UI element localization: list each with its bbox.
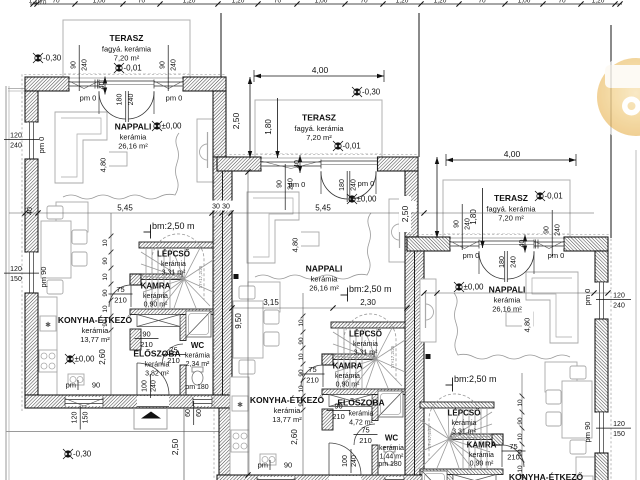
svg-text:90: 90 [142, 330, 150, 339]
svg-text:60: 60 [185, 409, 192, 417]
unit2 party wall [405, 237, 424, 475]
svg-text:pm 90: pm 90 [39, 267, 48, 288]
svg-text:KONYHA-ÉTKEZŐ: KONYHA-ÉTKEZŐ [58, 314, 133, 325]
svg-text:TERASZ: TERASZ [494, 193, 528, 203]
unit1 front wall right block [183, 77, 226, 91]
svg-text:NAPPALI: NAPPALI [306, 264, 343, 274]
walkway line bottom-left [6, 431, 222, 433]
unit3 left wall mid [595, 319, 608, 412]
unit2 terrace french door arcs [346, 171, 348, 202]
unit3 terrace french door arcs [506, 251, 508, 282]
svg-text:LÉPCSŐ: LÉPCSŐ [349, 330, 382, 339]
svg-text:pm 0: pm 0 [358, 179, 375, 188]
svg-text:1,44 m²: 1,44 m² [380, 454, 404, 461]
unit1 geometry [22, 20, 239, 475]
svg-text:4,70: 4,70 [34, 0, 47, 7]
svg-text:4,00: 4,00 [504, 149, 521, 159]
svg-text:10: 10 [298, 319, 305, 327]
svg-text:1,80: 1,80 [469, 209, 478, 225]
svg-text:90: 90 [298, 337, 305, 345]
unit3 kamra door [502, 445, 524, 467]
svg-text:3,31 m²: 3,31 m² [162, 270, 186, 277]
unit3 level marker 0,00 [454, 282, 464, 292]
svg-text:120: 120 [10, 266, 22, 273]
svg-text:10: 10 [102, 273, 109, 281]
svg-text:210: 210 [306, 376, 319, 385]
unit3 level marker -0,01 [535, 191, 545, 201]
unit3 revision squiggle [454, 293, 570, 359]
svg-text:240: 240 [351, 179, 358, 191]
svg-text:✱: ✱ [45, 321, 51, 329]
unit2 right wall upper [405, 171, 418, 237]
unit2 front window label a [277, 164, 295, 210]
svg-text:240: 240 [151, 380, 158, 392]
unit3 left window 120/150 [597, 412, 606, 453]
svg-text:5,45: 5,45 [315, 204, 331, 213]
svg-text:180: 180 [117, 94, 124, 106]
svg-text:3,31 m²: 3,31 m² [452, 429, 476, 436]
svg-text:1,20: 1,20 [396, 0, 409, 5]
svg-text:90: 90 [298, 399, 305, 407]
unit3 front window band left [534, 240, 564, 249]
svg-text:70: 70 [274, 0, 282, 5]
unit1 entrance opening [137, 396, 169, 407]
svg-text:150: 150 [83, 412, 90, 424]
svg-text:90: 90 [284, 461, 292, 470]
svg-text:fagyá. kerámia: fagyá. kerámia [102, 45, 152, 54]
unit1 electric box [234, 274, 239, 279]
unit1 terrace french door arcs [125, 91, 127, 122]
unit2 kamra wall top [322, 354, 374, 360]
unit2 wardrobe [329, 395, 372, 407]
unit1 dining table [41, 221, 71, 278]
unit2 level marker -0,01 [333, 141, 343, 151]
party wall extension line 1 [220, 13, 222, 77]
svg-text:kerámia: kerámia [335, 373, 360, 380]
unit2 kamra door [301, 365, 323, 387]
svg-text:90: 90 [334, 402, 342, 411]
svg-text:13,77 m²: 13,77 m² [272, 415, 302, 424]
svg-text:pm 90: pm 90 [583, 422, 592, 443]
top dimension chain [30, 3, 622, 5]
dim 9,50 unit2 left [247, 172, 249, 475]
svg-text:2,50: 2,50 [400, 205, 410, 222]
unit2 dining chairs [239, 286, 255, 299]
svg-text:240: 240 [10, 143, 22, 150]
svg-text:pm 0: pm 0 [166, 94, 183, 103]
svg-text:1,20: 1,20 [592, 0, 605, 5]
svg-text:70: 70 [558, 0, 566, 5]
unit1 left window label 1 [4, 133, 39, 150]
unit2 bm:2,50 label [341, 294, 349, 296]
unit1 entrance stoop [134, 408, 167, 429]
unit2 armchair [248, 282, 280, 312]
unit2 fridge [232, 396, 248, 411]
svg-text:10: 10 [517, 433, 524, 441]
svg-text:kerámia: kerámia [120, 133, 148, 142]
svg-text:1,00: 1,00 [93, 0, 106, 5]
unit3 stair wall [420, 402, 494, 408]
svg-text:180: 180 [499, 256, 506, 268]
unit2 toilet [384, 447, 395, 452]
svg-text:fagyá. kerámia: fagyá. kerámia [294, 124, 344, 133]
svg-text:90: 90 [102, 257, 109, 265]
svg-text:±0,00: ±0,00 [162, 122, 183, 131]
unit3 sofa [526, 272, 578, 343]
dim 4,00 above unit2 terrace [254, 75, 384, 77]
unit3 kitchen dim chain [521, 373, 523, 480]
svg-text:90: 90 [277, 180, 284, 188]
svg-text:ELŐSZOBA: ELŐSZOBA [337, 397, 384, 408]
unit3 left wall lower [595, 453, 608, 480]
unit1 kitchen level marker [65, 354, 75, 364]
svg-text:26,16 m²: 26,16 m² [118, 142, 148, 151]
svg-text:7,20 m²: 7,20 m² [306, 133, 332, 142]
svg-text:17×17,2/25: 17×17,2/25 [427, 425, 432, 448]
unit1 kitchen sink [68, 374, 84, 385]
svg-text:WC: WC [385, 434, 399, 443]
svg-text:KAMRA: KAMRA [467, 441, 497, 450]
svg-text:30: 30 [212, 204, 220, 211]
svg-text:26,16 m²: 26,16 m² [492, 305, 522, 314]
svg-text:3,31 m²: 3,31 m² [354, 350, 378, 357]
unit2 kitchen counter [230, 377, 249, 475]
watermark logo [592, 53, 640, 143]
unit1 wc door [162, 344, 183, 365]
unit1 left window label 2 [4, 266, 39, 283]
unit1 kamra wall corner [130, 274, 141, 285]
svg-text:150: 150 [613, 431, 625, 438]
unit2 electric box [426, 354, 431, 359]
svg-text:3,15: 3,15 [263, 298, 279, 307]
svg-text:90: 90 [92, 381, 100, 390]
unit2 kamra wall left lower [322, 409, 333, 430]
unit3 staircase [420, 394, 492, 468]
unit1 bm:2,50 label [144, 231, 152, 233]
unit1 kamra wall left lower [130, 329, 141, 350]
svg-text:-0,01: -0,01 [124, 64, 143, 73]
svg-text:kerámia: kerámia [349, 411, 374, 418]
unit2 front window band [261, 160, 321, 169]
svg-text:0,90 m²: 0,90 m² [336, 382, 360, 389]
svg-text:210: 210 [332, 412, 345, 421]
svg-text:pm 0: pm 0 [37, 137, 46, 154]
unit3 front window band right [450, 240, 479, 249]
unit2 wc wall lower [372, 445, 378, 475]
svg-text:10: 10 [298, 353, 305, 361]
svg-text:±0,00: ±0,00 [75, 355, 96, 364]
interior dim chain y=213 [9, 212, 594, 214]
svg-text:210: 210 [167, 356, 180, 365]
svg-text:120: 120 [72, 412, 79, 424]
svg-text:5,45: 5,45 [117, 204, 133, 213]
unit1 kamra door [109, 285, 131, 307]
svg-text:70: 70 [360, 0, 368, 5]
svg-text:1,20: 1,20 [434, 0, 447, 5]
unit3 right window label 2 [596, 421, 631, 438]
unit1 left wall mid [25, 159, 38, 252]
unit2 wc wall upper [372, 395, 378, 421]
svg-text:75: 75 [116, 285, 124, 294]
svg-text:pm 0: pm 0 [548, 251, 565, 260]
svg-text:10: 10 [298, 385, 305, 393]
svg-text:-0,30: -0,30 [73, 450, 92, 459]
svg-text:kerámia: kerámia [353, 341, 378, 348]
svg-text:240: 240 [613, 303, 625, 310]
dim 2,50 unit1-unit2 step [249, 77, 251, 158]
unit1 armchair [56, 202, 88, 232]
svg-text:90: 90 [102, 319, 109, 327]
unit3 window opening V marks [450, 241, 564, 249]
unit1 right wall upper [213, 91, 226, 157]
svg-text:240: 240 [128, 94, 135, 106]
unit2 kitchen window 120/150 [257, 477, 295, 480]
unit3 kamra wall corner [492, 434, 503, 445]
unit2 geometry [214, 100, 431, 480]
svg-text:90: 90 [517, 417, 524, 425]
unit1 terrace outline [63, 20, 190, 78]
svg-text:1,20: 1,20 [232, 0, 245, 5]
svg-text:KONYHA-ÉTKEZŐ: KONYHA-ÉTKEZŐ [250, 394, 325, 405]
svg-text:210: 210 [359, 436, 372, 445]
dim 4,00 above unit3 terrace [446, 159, 576, 161]
unit1 stove [39, 350, 57, 372]
party wall extension line 2 [418, 13, 420, 157]
svg-text:75: 75 [169, 346, 177, 355]
unit3 eaves dashed outline [407, 235, 611, 480]
unit1 shower [186, 311, 211, 337]
svg-text:10: 10 [517, 399, 524, 407]
unit3 front window label a [544, 210, 562, 256]
unit2 tv sideboard [389, 199, 405, 262]
unit3 wardrobe [453, 475, 496, 480]
unit2 terrace outline [255, 100, 382, 158]
unit1 stair wall [139, 242, 213, 248]
svg-text:pm 0: pm 0 [583, 289, 592, 306]
unit2 entrance opening [329, 476, 361, 480]
svg-text:NAPPALI: NAPPALI [115, 122, 152, 132]
svg-text:7,20 m²: 7,20 m² [498, 214, 524, 223]
unit2 dining table [233, 301, 263, 358]
unit1 kitchen window 120/150 [65, 397, 103, 406]
svg-text:10: 10 [102, 305, 109, 313]
svg-text:100: 100 [142, 380, 149, 392]
unit1 level marker -0,01 [114, 63, 124, 73]
unit1 front window band left [69, 80, 99, 89]
svg-text:fagyá. kerámia: fagyá. kerámia [486, 205, 536, 214]
unit3 front window label b [454, 204, 472, 250]
unit3 coffee table [506, 312, 533, 326]
svg-text:75: 75 [361, 426, 369, 435]
svg-text:bm:2,50 m: bm:2,50 m [349, 284, 392, 294]
svg-text:240: 240 [511, 256, 518, 268]
svg-text:pm 180: pm 180 [378, 461, 401, 468]
svg-text:13,77 m²: 13,77 m² [80, 335, 110, 344]
unit2 hall wall top [322, 389, 405, 395]
svg-text:60: 60 [196, 409, 203, 417]
svg-text:9,50: 9,50 [234, 313, 243, 329]
site level marker -0,30 [63, 449, 73, 459]
unit2 hall entrance door [329, 443, 361, 475]
svg-text:240: 240 [351, 455, 358, 467]
unit2 revision squiggle [255, 213, 371, 279]
unit1 dining chairs [47, 206, 63, 219]
unit2 kamra wall corner [322, 354, 333, 365]
svg-text:KAMRA: KAMRA [141, 282, 171, 291]
unit3 left window 120/240 [597, 282, 606, 319]
svg-text:WC: WC [191, 341, 205, 350]
svg-text:70: 70 [138, 0, 146, 5]
unit1 toilet [192, 367, 203, 372]
svg-text:kerámia: kerámia [311, 275, 339, 284]
svg-text:TERASZ: TERASZ [302, 113, 336, 123]
unit1 eaves dashed outline [22, 75, 226, 412]
svg-text:kerámia: kerámia [185, 353, 210, 360]
svg-text:90: 90 [102, 289, 109, 297]
svg-text:1,80: 1,80 [264, 119, 273, 135]
unit3 kitchen counter [576, 457, 595, 480]
svg-text:26,16 m²: 26,16 m² [309, 284, 339, 293]
unit3 right window label 1 [596, 293, 631, 310]
unit3 front wall right block [407, 237, 450, 251]
unit2 shower [378, 391, 403, 417]
unit3 terrace outline [443, 180, 570, 238]
unit3 left wall upper [595, 251, 608, 282]
svg-text:LÉPCSŐ: LÉPCSŐ [448, 409, 481, 418]
unit1 bottom window label [72, 406, 90, 430]
svg-text:90: 90 [454, 220, 461, 228]
svg-text:17×17,2/25: 17×17,2/25 [390, 345, 395, 368]
svg-text:pm 0: pm 0 [80, 94, 97, 103]
svg-text:90: 90 [544, 226, 551, 234]
dim 2,50 below unit1 [183, 408, 185, 480]
svg-text:-0,30: -0,30 [362, 88, 381, 97]
svg-text:1,00: 1,00 [518, 0, 531, 5]
unit2 bottom wall [217, 475, 424, 480]
unit1 tv sideboard [197, 119, 213, 182]
svg-text:2,60: 2,60 [98, 349, 107, 365]
unit2 eaves dashed outline [214, 155, 418, 480]
unit1 kitchen counter [38, 297, 57, 395]
svg-text:70: 70 [478, 0, 486, 5]
svg-text:10: 10 [517, 465, 524, 473]
plot line right of unit 3 [610, 25, 612, 238]
unit2 level marker 0,00 [347, 194, 357, 204]
unit1 staircase [141, 234, 213, 308]
svg-text:210: 210 [140, 340, 153, 349]
svg-text:240: 240 [555, 224, 562, 236]
unit3 kamra wall top [451, 434, 503, 440]
unit2 stove [231, 430, 249, 452]
site level marker -0,30 [352, 87, 362, 97]
svg-text:kerámia: kerámia [379, 445, 404, 452]
svg-text:1,20: 1,20 [183, 0, 196, 5]
site level marker -0,30 [33, 53, 43, 63]
svg-text:4,80: 4,80 [291, 238, 300, 253]
svg-text:180: 180 [339, 179, 346, 191]
unit1 revision squiggle [63, 133, 179, 199]
dim 2,30 unit2 [333, 307, 407, 309]
unit1 kitchen dim chain [110, 213, 112, 395]
svg-text:kerámia: kerámia [143, 293, 168, 300]
unit1 window opening V marks [69, 81, 183, 89]
unit2 front wall left block [217, 157, 261, 171]
unit2 wc window 60/60 [385, 477, 404, 480]
plot boundary right edge [635, 150, 637, 480]
svg-text:2,34 m²: 2,34 m² [186, 361, 210, 368]
unit1 left window 120/240 [27, 122, 36, 159]
unit3 fridge [577, 476, 593, 480]
unit1 neighbour wall stub [219, 408, 232, 475]
unit1 wc window 60/60 [193, 397, 212, 406]
svg-text:30: 30 [222, 204, 230, 211]
unit1 sofa [55, 112, 107, 183]
svg-text:-0,30: -0,30 [43, 54, 62, 63]
svg-text:pm: pm [258, 461, 268, 470]
svg-text:10: 10 [102, 239, 109, 247]
unit1 level marker 0,00 [152, 121, 162, 131]
svg-text:75: 75 [308, 365, 316, 374]
unit2 window opening V mark [261, 161, 321, 169]
unit1 left wall upper [25, 91, 38, 122]
svg-text:2,30: 2,30 [360, 298, 376, 307]
svg-text:3,82 m²: 3,82 m² [145, 371, 169, 378]
unit1 wc window label [185, 401, 203, 425]
svg-text:0,90 m²: 0,90 m² [470, 461, 494, 468]
svg-text:0,90 m²: 0,90 m² [144, 302, 168, 309]
svg-text:2,60: 2,60 [290, 429, 299, 445]
svg-text:70: 70 [52, 0, 60, 5]
svg-text:90: 90 [71, 61, 78, 69]
svg-text:90: 90 [160, 61, 167, 69]
svg-text:kerámia: kerámia [494, 296, 522, 305]
svg-text:4,80: 4,80 [99, 158, 108, 173]
unit1 left wall lower [25, 293, 38, 395]
unit1 left window 120/150 [27, 252, 36, 293]
svg-text:2,50: 2,50 [170, 438, 180, 455]
unit1 kamra wall top [130, 274, 182, 280]
svg-text:LÉPCSŐ: LÉPCSŐ [157, 250, 190, 259]
unit1 coffee table [100, 152, 127, 166]
svg-text:1,00: 1,00 [315, 0, 328, 5]
unit1 wc wall upper [180, 315, 186, 341]
svg-text:40: 40 [27, 207, 34, 215]
svg-text:4,00: 4,00 [312, 65, 329, 75]
svg-text:90: 90 [517, 449, 524, 457]
svg-text:-0,01: -0,01 [545, 192, 564, 201]
svg-text:2,50: 2,50 [231, 112, 241, 129]
svg-text:bm:2,50 m: bm:2,50 m [152, 221, 195, 231]
svg-text:kerámia: kerámia [145, 362, 170, 369]
unit1 wardrobe [137, 315, 180, 327]
svg-text:120: 120 [613, 293, 625, 300]
unit1 party wall [213, 157, 232, 395]
svg-text:120: 120 [613, 421, 625, 428]
svg-text:±0,00: ±0,00 [357, 195, 378, 204]
svg-text:210: 210 [114, 296, 127, 305]
svg-text:pm 180: pm 180 [185, 384, 208, 391]
svg-text:±0,00: ±0,00 [464, 283, 485, 292]
svg-text:240: 240 [288, 178, 295, 190]
svg-text:TERASZ: TERASZ [110, 33, 144, 43]
unit1 fridge [40, 316, 56, 331]
unit1 bottom wall [25, 395, 232, 408]
unit1 hall entrance door [137, 363, 169, 395]
dim 5,45 unit3 interior [424, 292, 608, 294]
svg-text:KAMRA: KAMRA [333, 362, 363, 371]
unit3 shower [422, 471, 447, 480]
svg-text:100: 100 [342, 455, 349, 467]
